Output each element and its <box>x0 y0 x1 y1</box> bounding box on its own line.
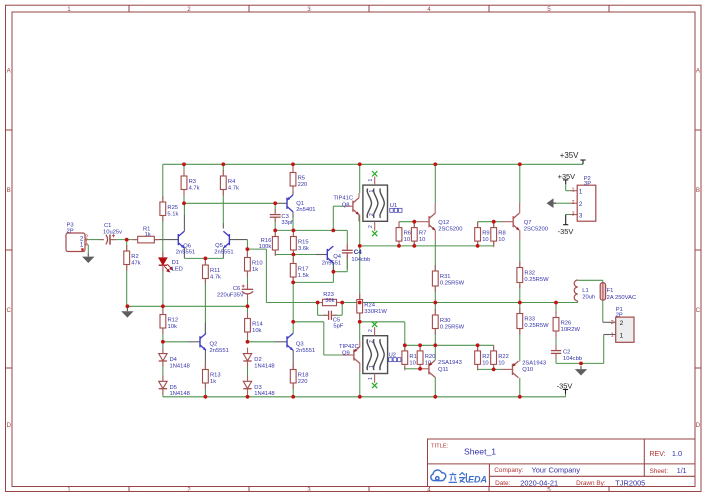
svg-text:10: 10 <box>498 360 504 366</box>
svg-text:0.25R5W: 0.25R5W <box>524 323 549 329</box>
svg-text:TIP42C: TIP42C <box>339 344 359 350</box>
svg-text:R7: R7 <box>419 231 426 237</box>
svg-text:1: 1 <box>369 190 375 193</box>
svg-text:2020-04-21: 2020-04-21 <box>520 478 558 487</box>
svg-text:TIP41C: TIP41C <box>333 196 353 202</box>
svg-text:Q6: Q6 <box>183 243 191 249</box>
svg-text:Q3: Q3 <box>296 341 304 347</box>
svg-text:LED: LED <box>172 267 183 273</box>
svg-text:330R1W: 330R1W <box>364 309 387 315</box>
svg-text:Q10: Q10 <box>522 367 533 373</box>
svg-text:1: 1 <box>611 332 614 338</box>
svg-text:F1: F1 <box>607 288 614 294</box>
svg-text:10k: 10k <box>252 328 261 334</box>
svg-text:1: 1 <box>85 240 88 246</box>
svg-text:0.25R5W: 0.25R5W <box>524 277 549 283</box>
svg-text:Q11: Q11 <box>438 367 449 373</box>
svg-text:1N4148: 1N4148 <box>254 364 274 370</box>
svg-text:D: D <box>696 422 701 429</box>
svg-text:R24: R24 <box>364 303 375 309</box>
svg-text:C2: C2 <box>563 350 570 356</box>
svg-text:10: 10 <box>482 237 488 243</box>
svg-text:C5: C5 <box>333 317 340 323</box>
svg-text:C: C <box>696 307 701 314</box>
svg-text:2: 2 <box>611 320 614 326</box>
svg-text:R16: R16 <box>261 238 272 244</box>
svg-text:10: 10 <box>409 360 415 366</box>
svg-text:R12: R12 <box>168 318 179 324</box>
svg-text:D: D <box>6 422 11 429</box>
svg-text:EDA: EDA <box>468 475 487 485</box>
svg-text:4.7k: 4.7k <box>228 185 239 191</box>
svg-text:R17: R17 <box>298 267 309 273</box>
svg-text:0.25R5W: 0.25R5W <box>440 280 465 286</box>
svg-text:R33: R33 <box>524 317 535 323</box>
svg-text:2n5401: 2n5401 <box>296 207 315 213</box>
svg-text:10: 10 <box>404 237 410 243</box>
svg-text:2A 250VAC: 2A 250VAC <box>607 295 637 301</box>
svg-text:Date:: Date: <box>495 480 510 487</box>
svg-text:1: 1 <box>80 241 84 248</box>
svg-text:1k: 1k <box>252 267 258 273</box>
svg-text:REV:: REV: <box>650 451 666 458</box>
svg-text:3: 3 <box>579 213 583 220</box>
svg-text:4.7k: 4.7k <box>210 274 221 280</box>
svg-text:R18: R18 <box>298 373 309 379</box>
svg-text:R10: R10 <box>252 261 263 267</box>
svg-text:2: 2 <box>620 320 624 327</box>
svg-text:2: 2 <box>368 329 374 332</box>
svg-text:220: 220 <box>298 379 308 385</box>
svg-text:R26: R26 <box>561 321 572 327</box>
svg-text:0.25R5W: 0.25R5W <box>440 324 465 330</box>
svg-text:D2: D2 <box>254 357 261 363</box>
svg-text:2n5551: 2n5551 <box>210 348 229 354</box>
svg-text:Drawn By:: Drawn By: <box>576 480 606 487</box>
svg-text:2n5551: 2n5551 <box>176 250 195 256</box>
svg-text:2: 2 <box>369 213 375 216</box>
svg-text:2: 2 <box>579 201 583 208</box>
svg-text:R22: R22 <box>498 354 509 360</box>
svg-text:Q9: Q9 <box>342 351 350 357</box>
svg-text:5.1k: 5.1k <box>167 211 178 217</box>
svg-text:R3: R3 <box>189 179 196 185</box>
svg-text:R20: R20 <box>425 354 436 360</box>
svg-text:1/1: 1/1 <box>677 468 687 475</box>
svg-text:1N4148: 1N4148 <box>170 364 190 370</box>
svg-text:10: 10 <box>482 360 488 366</box>
svg-text:R6: R6 <box>404 231 411 237</box>
svg-text:10: 10 <box>419 237 425 243</box>
svg-text:D4: D4 <box>170 357 178 363</box>
svg-text:220uF35V: 220uF35V <box>217 292 244 298</box>
svg-text:1: 1 <box>579 189 583 196</box>
svg-text:1: 1 <box>572 188 575 194</box>
svg-text:R2: R2 <box>131 254 138 260</box>
svg-text:Q12: Q12 <box>438 220 449 226</box>
svg-text:R32: R32 <box>524 271 535 277</box>
svg-text:D3: D3 <box>254 385 261 391</box>
svg-text:2SA1943: 2SA1943 <box>522 360 546 366</box>
svg-text:1N4148: 1N4148 <box>254 391 274 397</box>
svg-text:2P: 2P <box>616 313 623 319</box>
svg-text:1k: 1k <box>145 232 151 238</box>
svg-text:Company:: Company: <box>494 467 523 474</box>
svg-text:C3: C3 <box>281 214 288 220</box>
svg-text:5pF: 5pF <box>333 324 343 330</box>
svg-text:R11: R11 <box>210 268 220 274</box>
svg-text:L1: L1 <box>582 288 588 294</box>
svg-text:1: 1 <box>67 486 71 493</box>
svg-text:104cbb: 104cbb <box>563 356 582 362</box>
svg-text:5: 5 <box>547 486 551 493</box>
svg-text:36k: 36k <box>325 298 334 304</box>
svg-text:Q5: Q5 <box>215 243 223 249</box>
svg-text:104cbb: 104cbb <box>351 257 370 263</box>
svg-text:47k: 47k <box>131 260 140 266</box>
svg-text:2: 2 <box>368 225 374 228</box>
svg-text:R25: R25 <box>167 205 178 211</box>
svg-text:R15: R15 <box>298 240 309 246</box>
svg-text:2: 2 <box>187 486 191 493</box>
svg-text:1N4148: 1N4148 <box>170 391 190 397</box>
svg-text:3: 3 <box>307 6 311 13</box>
svg-text:2n5551: 2n5551 <box>296 348 315 354</box>
svg-text:2P: 2P <box>67 229 74 235</box>
svg-text:1.5k: 1.5k <box>298 273 309 279</box>
svg-text:2SA1943: 2SA1943 <box>438 360 462 366</box>
svg-text:+35V: +35V <box>558 172 576 181</box>
svg-text:4.7k: 4.7k <box>189 185 200 191</box>
svg-text:1: 1 <box>369 365 375 368</box>
svg-text:10k: 10k <box>168 324 177 330</box>
svg-text:Q1: Q1 <box>296 201 304 207</box>
svg-text:3: 3 <box>572 212 575 218</box>
svg-text:3P: 3P <box>584 181 591 187</box>
svg-text:1k: 1k <box>210 379 216 385</box>
svg-text:C: C <box>6 307 11 314</box>
svg-text:D5: D5 <box>170 385 177 391</box>
svg-text:33pf: 33pf <box>281 220 293 226</box>
svg-text:B: B <box>696 187 700 194</box>
svg-text:20uh: 20uh <box>582 295 595 301</box>
svg-text:2: 2 <box>369 340 375 343</box>
svg-text:R5: R5 <box>298 176 305 182</box>
svg-text:1: 1 <box>620 332 624 339</box>
svg-text:Sheet_1: Sheet_1 <box>464 447 496 457</box>
svg-text:R30: R30 <box>440 318 451 324</box>
svg-text:2n5551: 2n5551 <box>214 249 233 255</box>
svg-text:Your Company: Your Company <box>532 465 581 474</box>
svg-text:100k: 100k <box>259 244 272 250</box>
svg-text:Q2: Q2 <box>210 341 218 347</box>
svg-text:1: 1 <box>368 179 374 182</box>
svg-text:-35V: -35V <box>558 227 574 236</box>
svg-text:2n5551: 2n5551 <box>322 261 341 267</box>
svg-text:R14: R14 <box>252 322 263 328</box>
svg-text:TJR2005: TJR2005 <box>615 478 645 487</box>
svg-text:R4: R4 <box>228 179 236 185</box>
svg-text:R31: R31 <box>440 274 451 280</box>
svg-text:10: 10 <box>498 237 504 243</box>
svg-text:Sheet:: Sheet: <box>650 468 669 475</box>
svg-text:Q8: Q8 <box>342 202 350 208</box>
svg-text:220: 220 <box>298 182 308 188</box>
svg-text:1: 1 <box>368 377 374 380</box>
svg-text:C1: C1 <box>104 223 111 229</box>
svg-text:2SC5200: 2SC5200 <box>524 227 548 233</box>
svg-text:1.0: 1.0 <box>672 449 682 458</box>
svg-text:R13: R13 <box>210 373 221 379</box>
svg-text:2: 2 <box>572 200 575 206</box>
svg-text:R9: R9 <box>482 231 489 237</box>
svg-text:C4: C4 <box>354 249 362 256</box>
svg-text:3: 3 <box>307 486 311 493</box>
svg-text:+35V: +35V <box>560 151 579 160</box>
svg-text:R8: R8 <box>498 231 505 237</box>
svg-text:4: 4 <box>427 486 431 493</box>
svg-text:C6: C6 <box>233 286 240 292</box>
svg-text:2SC5200: 2SC5200 <box>438 227 462 233</box>
svg-text:B: B <box>7 187 11 194</box>
svg-text:Q4: Q4 <box>333 254 342 260</box>
svg-text:10R2W: 10R2W <box>561 327 581 333</box>
svg-text:4: 4 <box>427 6 431 13</box>
svg-text:2: 2 <box>187 6 191 13</box>
svg-text:TITLE:: TITLE: <box>431 443 449 449</box>
svg-text:-35V: -35V <box>557 382 573 391</box>
svg-text:Q7: Q7 <box>524 220 532 226</box>
svg-text:3.6k: 3.6k <box>298 246 309 252</box>
svg-text:5: 5 <box>547 6 551 13</box>
svg-text:1: 1 <box>67 6 71 13</box>
svg-text:D1: D1 <box>172 260 179 266</box>
